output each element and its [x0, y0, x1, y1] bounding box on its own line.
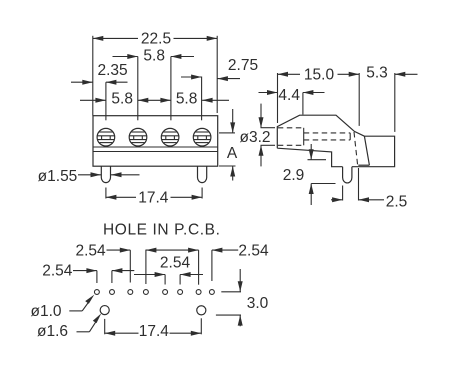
svg-text:3.0: 3.0: [247, 295, 269, 312]
svg-text:5.3: 5.3: [366, 65, 388, 82]
svg-text:4.4: 4.4: [278, 87, 300, 104]
dim 15.0: [278, 67, 360, 126]
dim 3.0: [216, 269, 269, 326]
svg-text:2.54: 2.54: [238, 242, 269, 259]
svg-text:ø1.0: ø1.0: [30, 303, 61, 320]
leader dia 1.6: [37, 313, 101, 340]
svg-text:ø1.55: ø1.55: [38, 168, 78, 185]
svg-text:A: A: [227, 145, 238, 162]
screw 2: [129, 128, 147, 146]
dim dia 1.55: [38, 168, 140, 185]
dim dia 3.2: [239, 104, 275, 167]
svg-text:5.8: 5.8: [111, 90, 133, 107]
dim 2.54 row2: [42, 262, 134, 283]
svg-text:15.0: 15.0: [304, 67, 335, 84]
section label A: [219, 109, 238, 181]
dim 5.3: [366, 65, 417, 132]
side view pin: [343, 167, 352, 183]
svg-text:2.5: 2.5: [386, 194, 408, 211]
svg-text:17.4: 17.4: [138, 190, 169, 207]
screw 4: [193, 128, 211, 146]
hidden hole dashed: [278, 128, 358, 165]
dim 5.8 lower-right: [176, 90, 229, 107]
svg-text:17.4: 17.4: [139, 323, 170, 340]
svg-text:2.35: 2.35: [98, 62, 128, 79]
front pin 2: [198, 166, 207, 182]
svg-text:5.8: 5.8: [143, 48, 165, 65]
dim 5.8 lower-left: [80, 90, 171, 107]
svg-text:ø3.2: ø3.2: [239, 129, 270, 146]
dim 22.5: [93, 31, 217, 116]
svg-text:HOLE IN P.C.B.: HOLE IN P.C.B.: [103, 222, 221, 239]
dim 2.9: [283, 144, 336, 205]
svg-text:2.54: 2.54: [42, 262, 73, 279]
dim 2.5: [331, 168, 407, 211]
dim 2.54 row3 center: [134, 254, 203, 284]
dim 2.75: [181, 57, 258, 120]
dim 5.8 upper: [113, 48, 195, 121]
big hole right: [197, 306, 206, 315]
front pin 1: [101, 166, 110, 182]
screw 1: [97, 128, 115, 146]
dim 2.54 row1 right: [212, 242, 269, 281]
svg-text:5.8: 5.8: [176, 90, 198, 107]
dim 2.54 row1 left: [76, 242, 199, 284]
dim 17.4 bottom: [105, 318, 202, 340]
front view body: [93, 116, 218, 167]
svg-text:2.9: 2.9: [283, 167, 305, 184]
svg-text:2.54: 2.54: [76, 242, 107, 259]
dim 2.35: [71, 62, 128, 120]
leader dia 1.0: [30, 295, 94, 321]
dim 4.4: [259, 87, 325, 115]
svg-text:ø1.6: ø1.6: [37, 323, 68, 340]
screw 3: [161, 128, 179, 146]
side view outline: [277, 115, 394, 167]
svg-text:2.54: 2.54: [160, 254, 191, 271]
dim 17.4 front: [106, 188, 202, 207]
svg-text:22.5: 22.5: [141, 31, 171, 48]
big hole left: [100, 306, 109, 315]
small holes row: [94, 290, 214, 295]
svg-text:2.75: 2.75: [228, 57, 258, 74]
